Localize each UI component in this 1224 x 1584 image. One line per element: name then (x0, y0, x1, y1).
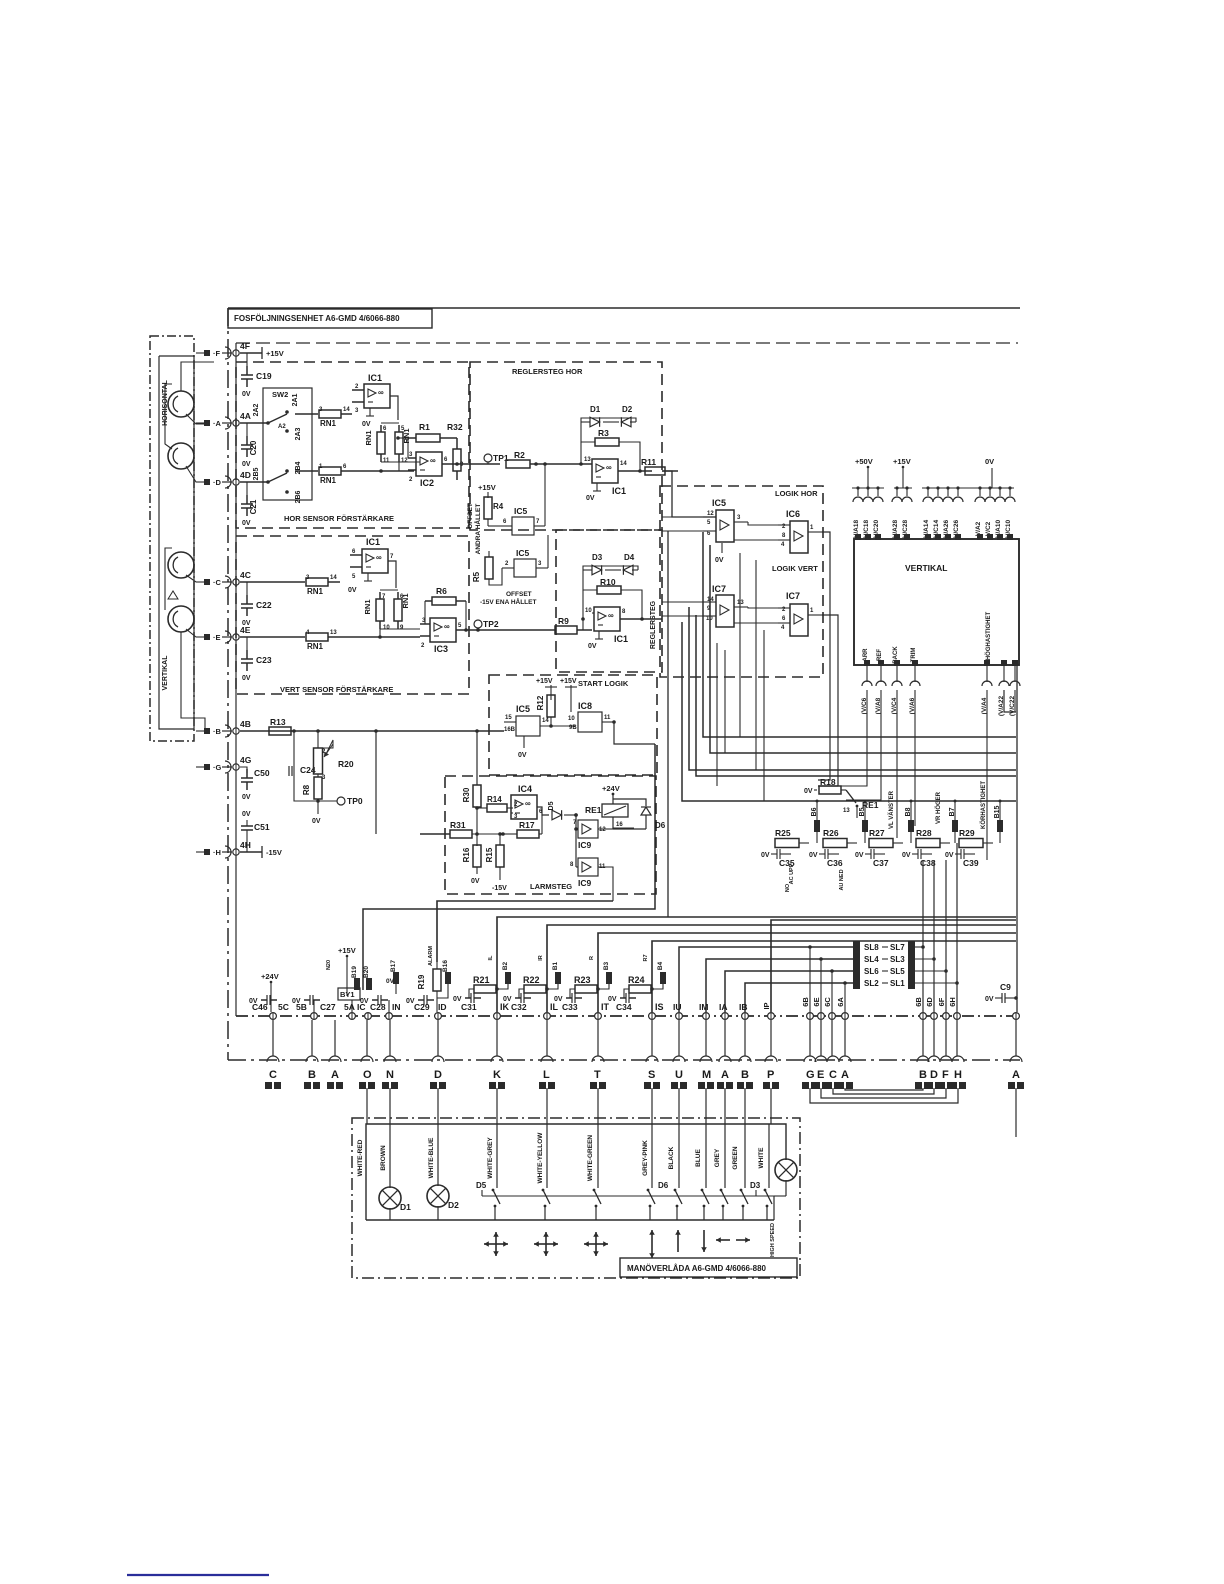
svg-text:0V: 0V (242, 520, 251, 527)
svg-text:12: 12 (599, 827, 606, 833)
svg-text:13: 13 (584, 457, 591, 463)
svg-text:0V: 0V (761, 852, 770, 859)
svg-text:OFFSET: OFFSET (506, 591, 532, 598)
svg-text:IC1: IC1 (612, 486, 626, 496)
svg-text:RN1: RN1 (364, 430, 373, 445)
resistor R16 (462, 845, 481, 885)
logic gate IC5 (logik hor a) (703, 498, 748, 564)
svg-text:14: 14 (542, 718, 549, 724)
svg-text:BLUE: BLUE (695, 1148, 702, 1166)
svg-text:E: E (817, 1069, 824, 1081)
dashed box VERT SENSOR FORSTARKARE (236, 536, 469, 694)
resistor R9 (555, 616, 592, 634)
resistor R4 (484, 497, 504, 526)
svg-text:∞: ∞ (430, 456, 436, 465)
svg-text:B4: B4 (657, 961, 664, 970)
connector pin T at x=598 (590, 1056, 606, 1089)
svg-text:WHITE-GREY: WHITE-GREY (487, 1137, 494, 1179)
SL link bars SL8-SL1 (853, 941, 915, 989)
+15V +15V feeds (536, 678, 577, 712)
svg-text:REGLERSTEG: REGLERSTEG (650, 600, 657, 649)
beads B19 B20 (351, 966, 372, 990)
svg-text:L: L (543, 1069, 550, 1081)
connector pin P at x=771 (763, 1056, 779, 1089)
svg-text:6F: 6F (937, 997, 946, 1006)
wire R11 to logik gate input (662, 471, 716, 517)
svg-text:4H: 4H (240, 840, 251, 850)
bus labels 6B 6D 6F 6H (914, 997, 957, 1007)
svg-text:2B6: 2B6 (295, 490, 302, 503)
svg-text:∞: ∞ (376, 553, 382, 562)
svg-text:0V: 0V (985, 457, 994, 466)
wire right-mid verticals to SL columns (915, 843, 959, 1012)
svg-text:AC UPP: AC UPP (789, 863, 795, 884)
svg-text:0V: 0V (386, 978, 395, 985)
op-amp IC1 (reglersteg hor) (560, 442, 652, 502)
wire V/C6 drop (820, 690, 867, 786)
svg-text:-15V ENA HÅLLET: -15V ENA HÅLLET (480, 597, 536, 606)
svg-text:U: U (675, 1069, 683, 1081)
svg-text:R19: R19 (417, 974, 426, 989)
svg-text:6E: 6E (812, 997, 821, 1006)
resistor R18 (804, 777, 846, 795)
svg-text:R29: R29 (959, 828, 975, 838)
lamp D1 (379, 1124, 411, 1220)
4-way arrow symbol 1 (484, 1232, 508, 1256)
svg-text:R27: R27 (869, 828, 885, 838)
svg-text:IN: IN (392, 1002, 401, 1012)
svg-text:+24V: +24V (602, 784, 620, 793)
op-amp IC2 (408, 452, 470, 488)
svg-text:C33: C33 (562, 1002, 578, 1012)
logic gate IC7 (logik vert b) (778, 591, 822, 636)
svg-text:B: B (308, 1069, 316, 1081)
connector pin B at x=745 (737, 1056, 753, 1089)
wire node B feed (240, 717, 504, 735)
svg-text:4B: 4B (240, 719, 251, 729)
svg-text:+15V: +15V (478, 483, 496, 492)
svg-text:SL6: SL6 (864, 967, 879, 976)
svg-text:13: 13 (843, 808, 850, 814)
svg-text:∞: ∞ (378, 388, 384, 397)
bead B4 (643, 954, 666, 989)
long wire y770 (689, 607, 1016, 770)
svg-text:RN1: RN1 (320, 419, 337, 428)
resistor RN1 (vertical a) (364, 425, 390, 464)
svg-text:D5: D5 (548, 801, 555, 810)
svg-text:0V: 0V (855, 852, 864, 859)
svg-text:+15V: +15V (266, 349, 284, 358)
capacitor C50 (240, 767, 270, 801)
resistor network RN1 (vert bottom h) (240, 630, 420, 651)
VERTIKAL top pin -V/A28 (892, 486, 902, 540)
svg-text:R30: R30 (462, 787, 471, 802)
connector pin C at x=833 (825, 1056, 841, 1089)
svg-text:R25: R25 (775, 828, 791, 838)
input node 4C (C) (196, 570, 251, 588)
svg-text:IL: IL (550, 1002, 559, 1012)
svg-text:H: H (954, 1069, 962, 1081)
svg-text:2A3: 2A3 (295, 427, 302, 440)
wire gate inputs from reglersteg (662, 517, 716, 616)
svg-text:C27: C27 (320, 1002, 336, 1012)
svg-text:SL4: SL4 (864, 955, 879, 964)
svg-text:D1: D1 (400, 1202, 411, 1212)
svg-text:16: 16 (616, 822, 623, 828)
svg-text:B19: B19 (351, 966, 358, 978)
svg-text:BLACK: BLACK (668, 1146, 675, 1169)
svg-text:C22: C22 (256, 600, 272, 610)
resistor R8 (302, 774, 322, 812)
svg-text:R: R (589, 956, 595, 960)
svg-text:0V: 0V (242, 391, 251, 398)
svg-text:GREY: GREY (714, 1148, 721, 1167)
svg-text:SW2: SW2 (272, 390, 288, 399)
double vertical arrow (649, 1230, 655, 1258)
blue underline mark (127, 1574, 269, 1576)
sensor transducer circle 4 (168, 606, 194, 632)
switch at x=706 (701, 1124, 709, 1220)
logic gate IC5 (start) (504, 704, 575, 759)
resistor RN1 (vert vertical a) (363, 592, 390, 631)
svg-text:∞: ∞ (525, 799, 531, 808)
wire V/A6 drop (914, 690, 916, 826)
resistor R26 (823, 828, 857, 848)
svg-text:14: 14 (620, 461, 627, 467)
svg-text:10: 10 (585, 608, 592, 614)
svg-text:R3: R3 (598, 428, 609, 438)
VERTIKAL top pin -V/C28 (902, 486, 912, 540)
svg-text:VERTIKAL: VERTIKAL (162, 655, 169, 691)
switch at x=652 (647, 1124, 655, 1220)
VERTIKAL top pin -V/A10 (995, 486, 1005, 540)
svg-text:C39: C39 (963, 858, 979, 868)
svg-text:·G: ·G (213, 763, 221, 772)
svg-text:·F: ·F (213, 349, 220, 358)
VERTIKAL top pin -V/A26 (943, 486, 953, 540)
svg-text:R32: R32 (447, 422, 463, 432)
wire V/C22 vertical (1014, 690, 1016, 712)
svg-text:R5: R5 (472, 571, 481, 582)
capacitor C21 (241, 482, 258, 527)
resistor R21 group (453, 975, 510, 1012)
svg-text:A: A (841, 1069, 849, 1081)
svg-text:4F: 4F (240, 341, 250, 351)
bead B3 (589, 956, 612, 989)
svg-text:IC5: IC5 (516, 548, 530, 558)
VERTIKAL bottom pin V/C22 (1009, 660, 1020, 716)
svg-text:IR: IR (538, 955, 544, 961)
switch at x=547 (542, 1124, 550, 1220)
svg-text:C20: C20 (249, 440, 258, 455)
svg-text:WHITE-BLUE: WHITE-BLUE (428, 1137, 435, 1178)
svg-text:0V: 0V (242, 811, 251, 818)
svg-text:VR HÖGER: VR HÖGER (935, 791, 942, 824)
switch at x=497 (492, 1124, 500, 1220)
svg-text:D: D (930, 1069, 938, 1081)
lamp D4 right (774, 1159, 797, 1220)
resistor R11 (641, 457, 678, 475)
switch at x=598 (593, 1124, 601, 1220)
svg-text:LOGIK VERT: LOGIK VERT (772, 564, 818, 573)
svg-text:·C: ·C (213, 578, 221, 587)
op-amp IC1 (reglersteg vert) (581, 590, 662, 650)
relay contact RE1 (13) (843, 790, 879, 818)
sensor transducer circle 3 (168, 552, 194, 578)
svg-text:D3: D3 (750, 1181, 761, 1190)
+15V feed at node F (240, 347, 284, 359)
svg-text:0V: 0V (471, 878, 480, 885)
svg-text:14: 14 (330, 575, 337, 581)
0V rail (922, 457, 1014, 488)
wire SL rows to left bus nodes (679, 945, 853, 1012)
sensor internal wiring (165, 362, 214, 731)
svg-text:VL VÄNSTER: VL VÄNSTER (888, 790, 895, 829)
svg-text:6H: 6H (948, 997, 957, 1007)
svg-text:C51: C51 (254, 822, 270, 832)
svg-text:R9: R9 (558, 616, 569, 626)
connector pin F at x=946 (938, 1056, 954, 1089)
svg-text:VERT SENSOR FÖRSTÄRKARE: VERT SENSOR FÖRSTÄRKARE (280, 685, 393, 694)
svg-text:R28: R28 (916, 828, 932, 838)
svg-text:12: 12 (707, 511, 714, 517)
svg-text:B17: B17 (390, 960, 397, 972)
op-amp IC1 (vert input) (348, 537, 396, 594)
wire V/A4 drop (986, 690, 988, 860)
svg-text:START LOGIK: START LOGIK (578, 679, 629, 688)
svg-text:10: 10 (383, 625, 390, 631)
capacitor C22 (241, 582, 272, 627)
connector pin G at x=810 (802, 1056, 818, 1089)
svg-text:16B: 16B (504, 727, 516, 733)
input node 4G (G) (196, 755, 252, 773)
svg-text:B: B (741, 1069, 749, 1081)
svg-text:+15V: +15V (560, 678, 577, 685)
svg-text:13: 13 (330, 630, 337, 636)
resistor R10 (583, 570, 642, 618)
svg-text:IC4: IC4 (518, 784, 532, 794)
analog switch IC5 (b) (502, 535, 548, 577)
svg-text:RN1: RN1 (363, 599, 372, 614)
diodes D3 D4 (583, 553, 638, 575)
connector pin O at x=367 (359, 1056, 375, 1089)
svg-text:R11: R11 (641, 457, 656, 467)
svg-text:C28: C28 (370, 1002, 386, 1012)
svg-text:C32: C32 (511, 1002, 527, 1012)
svg-text:ANDRA HÅLLET: ANDRA HÅLLET (473, 504, 482, 555)
VERTIKAL top pin -V/C20 (873, 486, 883, 540)
svg-text:R21: R21 (473, 975, 490, 985)
connector pin B at x=923 (915, 1056, 931, 1089)
svg-text:IC5: IC5 (516, 704, 530, 714)
switch at x=679 (674, 1124, 682, 1220)
svg-text:ID: ID (438, 1002, 447, 1012)
svg-text:D2: D2 (448, 1200, 459, 1210)
dashed box LARMSTEG (445, 776, 656, 894)
svg-text:IC5: IC5 (712, 498, 726, 508)
wire bus right edge vertical (1016, 665, 1018, 1012)
svg-text:B16: B16 (442, 960, 449, 972)
resistor R6 (425, 586, 466, 605)
svg-text:HÖGHASTIGHET: HÖGHASTIGHET (985, 612, 992, 661)
svg-text:C21: C21 (249, 499, 258, 514)
op-amp IC3 (420, 601, 478, 654)
svg-text:R8: R8 (302, 784, 311, 795)
svg-text:-15V: -15V (266, 848, 282, 857)
svg-text:G: G (806, 1069, 815, 1081)
svg-text:T: T (594, 1069, 601, 1081)
svg-text:IC6: IC6 (786, 509, 800, 519)
VERTIKAL top pin -V/C26 (953, 486, 963, 540)
VERTIKAL bottom pin V/C6 (861, 648, 872, 714)
svg-text:11: 11 (383, 458, 390, 464)
switch group labels D5 D6 D3 (476, 1181, 761, 1196)
dashed box HOR SENSOR FORSTARKARE (236, 362, 469, 528)
svg-text:A: A (721, 1069, 729, 1081)
svg-text:R7: R7 (643, 954, 649, 961)
svg-text:D6: D6 (655, 821, 666, 830)
svg-text:0V: 0V (985, 996, 994, 1003)
svg-text:P: P (767, 1069, 774, 1081)
resistor R15 (485, 832, 507, 892)
svg-text:AU NED: AU NED (839, 869, 845, 890)
svg-text:R15: R15 (485, 847, 494, 862)
svg-text:0V: 0V (242, 620, 251, 627)
title box FOSFOLJNINGSENHET (228, 309, 432, 328)
4-way arrow symbol 3 (584, 1232, 608, 1256)
svg-text:R13: R13 (270, 717, 286, 727)
svg-text:NO: NO (785, 883, 791, 892)
svg-text:13: 13 (737, 600, 744, 606)
ferrite bead B15 (994, 800, 1003, 844)
op-amp IC4 (511, 784, 549, 820)
wire gate outputs down (818, 532, 846, 790)
svg-text:LOGIK HOR: LOGIK HOR (775, 489, 818, 498)
capacitor C23 (241, 637, 272, 682)
svg-text:0V: 0V (804, 788, 813, 795)
svg-text:5A: 5A (344, 1002, 355, 1012)
svg-text:2A2: 2A2 (253, 403, 260, 416)
buffer IC9 (b) (570, 858, 613, 901)
svg-text:SL7: SL7 (890, 943, 905, 952)
svg-text:R24: R24 (628, 975, 645, 985)
wires vert RN1 (378, 590, 420, 639)
switch contacts 2B5/2B4/2B6 (240, 461, 302, 503)
input node 4B (B) (196, 719, 251, 737)
svg-text:IC1: IC1 (614, 634, 628, 644)
svg-text:GREY-PINK: GREY-PINK (642, 1140, 649, 1176)
bead B1 (538, 955, 561, 989)
VERTIKAL top pin -V/C2 (985, 486, 995, 540)
resistor R31 (420, 820, 503, 838)
resistor R24 group (608, 975, 664, 1012)
4-way arrow symbol 2 (534, 1232, 558, 1256)
svg-text:0V: 0V (945, 852, 954, 859)
svg-text:10: 10 (568, 716, 575, 722)
svg-text:C31: C31 (461, 1002, 477, 1012)
svg-text:BY1: BY1 (340, 990, 355, 999)
+15V / BY1 (326, 946, 366, 1012)
svg-text:D1: D1 (590, 405, 601, 414)
resistor R22 group (503, 975, 559, 1012)
logic gate IC8 (568, 701, 655, 744)
svg-text:B3: B3 (603, 961, 610, 970)
svg-text:+15V: +15V (338, 946, 356, 955)
svg-text:11: 11 (604, 715, 611, 721)
op-amp IC1 (hor input) (352, 373, 398, 428)
svg-text:+24V: +24V (261, 972, 279, 981)
capacitor C27 group (292, 995, 336, 1012)
MANOVERLADA outer dash-dot box (352, 1118, 800, 1278)
svg-text:0V: 0V (715, 557, 724, 564)
long wire y925 from IL (547, 925, 1016, 1012)
svg-text:5B: 5B (296, 1002, 307, 1012)
capacitor C46 (249, 995, 289, 1012)
wire hor amp output (240, 436, 408, 471)
svg-text:RN1: RN1 (307, 642, 324, 651)
svg-text:6C: 6C (823, 997, 832, 1007)
svg-text:·H: ·H (213, 848, 221, 857)
svg-text:C36: C36 (827, 858, 843, 868)
svg-text:0V: 0V (312, 818, 321, 825)
svg-text:D2: D2 (622, 405, 633, 414)
svg-text:B1: B1 (552, 961, 559, 970)
MANOVERLADA inner box (366, 1124, 786, 1220)
diodes D1 D2 (581, 405, 636, 427)
svg-text:WHITE-YELLOW: WHITE-YELLOW (537, 1132, 544, 1184)
resistor R19 vertical + ALARM (417, 946, 441, 1012)
VERTIKAL bottom pin V/A22 (998, 660, 1009, 716)
svg-text:0V: 0V (348, 587, 357, 594)
svg-text:N20: N20 (326, 960, 332, 970)
svg-text:R6: R6 (436, 586, 447, 596)
connector pin E at x=821 (813, 1056, 829, 1089)
resistor R29 (959, 828, 993, 848)
capacitor C24 (288, 765, 316, 776)
long wire y737 (703, 532, 1016, 737)
ferrite bead B5 (859, 800, 868, 844)
connector pin S at x=652 (644, 1056, 660, 1089)
svg-text:∞: ∞ (608, 611, 614, 620)
svg-text:R17: R17 (519, 820, 535, 830)
svg-text:D6: D6 (658, 1181, 669, 1190)
svg-text:R16: R16 (462, 847, 471, 862)
resistor R23 group (554, 975, 610, 1012)
svg-text:C34: C34 (616, 1002, 632, 1012)
connector pin L at x=547 (539, 1056, 555, 1089)
capacitor C29 group (406, 995, 447, 1012)
svg-text:SL1: SL1 (890, 979, 905, 988)
input node 4D (D) (196, 470, 251, 488)
wire V/A8 drop (846, 690, 881, 800)
test point TP1 (470, 453, 509, 464)
connector pin H at x=958 (950, 1056, 966, 1089)
sensor transducer circle 1 (168, 391, 194, 417)
svg-text:6D: 6D (925, 997, 934, 1007)
wire RN1 verticals to input bus (379, 423, 420, 473)
svg-text:∞: ∞ (606, 463, 612, 472)
sensor transducer circle 2 (168, 443, 194, 469)
svg-text:IC1: IC1 (366, 537, 380, 547)
svg-text:·B: ·B (213, 727, 221, 736)
svg-text:IC1: IC1 (368, 373, 382, 383)
svg-text:B2: B2 (502, 961, 509, 970)
svg-text:C19: C19 (256, 371, 272, 381)
connector pin M at x=706 (698, 1056, 714, 1089)
svg-text:ARR: ARR (863, 648, 869, 662)
svg-text:R14: R14 (487, 795, 502, 804)
test point TP0 (294, 796, 363, 825)
